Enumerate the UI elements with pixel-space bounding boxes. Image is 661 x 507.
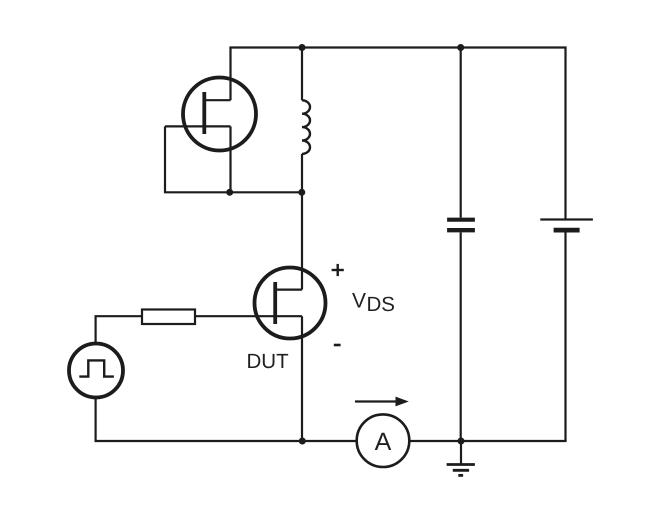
wire DUT source down [301, 316, 303, 441]
svg-text:DS: DS [367, 293, 395, 316]
wire pulse source to resistor [96, 316, 142, 343]
node top rail / capacitor [457, 44, 464, 51]
wire pulse source to bottom rail [94, 398, 96, 442]
wire top rail [229, 46, 566, 48]
wire bottom rail right [409, 440, 566, 442]
wire bottom rail left [95, 440, 357, 442]
node top rail / inductor [299, 44, 306, 51]
transistor Q1 (high-side, diode-connected) [165, 78, 256, 151]
transistor Q2 DUT [195, 268, 326, 339]
node DUT source / bottom rail [299, 438, 306, 445]
capacitor C1 [447, 48, 475, 442]
svg-text:A: A [375, 428, 392, 456]
inductor L1 [302, 48, 310, 193]
node capacitor / ground [458, 438, 465, 445]
ammeter A1 [357, 414, 410, 467]
ground [447, 441, 475, 475]
resistor R1 [142, 310, 195, 325]
svg-text:DUT: DUT [247, 350, 290, 373]
wire DUT drain from node [301, 192, 303, 289]
wire Q1 gate loop [165, 126, 302, 192]
wire Q1 source down [229, 126, 231, 193]
node Q1 source / gate loop [226, 189, 233, 196]
wire Q1 drain to top rail [229, 48, 231, 101]
label + (Vds positive) [332, 264, 344, 276]
node gate loop / inductor bottom [298, 189, 305, 196]
current direction arrow [355, 397, 409, 407]
svg-text:V: V [352, 290, 366, 313]
label VDS [352, 290, 395, 317]
battery V2 [540, 48, 593, 442]
pulse source V1 [69, 344, 123, 398]
label - (Vds negative) [334, 344, 341, 347]
